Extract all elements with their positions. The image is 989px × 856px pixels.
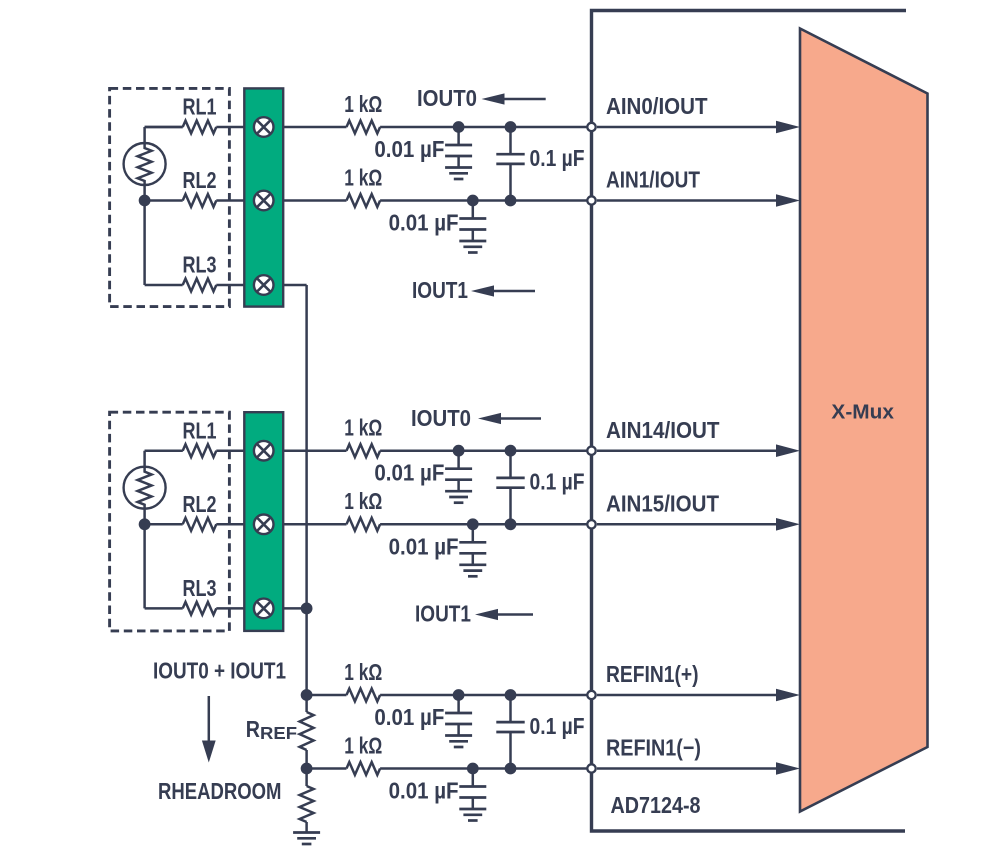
label 0.01 µF AIN14 row [374,460,444,486]
label RL1.2 [183,417,217,443]
wire RL3.2 right lead [216,607,244,610]
terminal 1C [254,275,274,295]
wire AIN15/IOUT to mux [597,523,777,526]
wire RL2.1 right lead [216,199,244,202]
label 1 kΩ AIN15 row [344,488,382,514]
svg-text:1 kΩ: 1 kΩ [344,488,382,514]
label RL2.2 [183,491,217,517]
wire RTD2 vertical [143,451,146,609]
svg-text:RL3: RL3 [183,252,217,278]
pin REFIN1(−) [587,764,595,772]
terminal 2A [254,441,274,461]
svg-text:R: R [246,716,261,742]
wire AIN0/IOUT to mux [597,126,777,129]
wire RL2.1 left lead [145,199,183,202]
wire RL3.1 right lead [216,284,244,287]
svg-text:RL1: RL1 [183,94,217,120]
label 1 kΩ REFIN1+ row [344,659,382,685]
wire RL3.2 left lead [145,607,183,610]
wire RL1.2 right lead [216,449,244,452]
wire REFIN1(−) to mux [597,767,777,770]
RTD sensor 1 element [124,143,166,185]
pin REFIN1(+) [587,691,595,699]
resistor 1kΩ AIN0 row [347,121,381,134]
wire AIN14/IOUT to mux [597,449,777,452]
label 0.01 µF REFIN1+ row [374,704,444,730]
svg-text:1 kΩ: 1 kΩ [344,415,382,441]
wire AIN1/IOUT to mux [597,199,777,202]
terminal 2C [254,599,274,619]
label 1 kΩ AIN0 row [344,91,382,117]
wire RL1.2 left lead [145,449,183,452]
svg-text:0.1 µF: 0.1 µF [530,713,585,739]
svg-text:AIN15/IOUT: AIN15/IOUT [606,491,719,517]
RTD sensor 1 dashed enclosure [110,88,230,306]
resistor RL3.1 [183,279,217,292]
arrow into mux AIN15/IOUT [776,518,800,531]
wire REFIN1(+) to mux [597,694,777,697]
arrow into mux AIN14/IOUT [776,444,800,457]
svg-text:IOUT1: IOUT1 [412,277,468,303]
label RL3.1 [183,252,217,278]
label IOUT0 + IOUT1 sum [153,658,286,684]
svg-text:IOUT0 + IOUT1: IOUT0 + IOUT1 [153,658,286,684]
node AIN15 row cap junction [467,518,479,530]
svg-text:IOUT0: IOUT0 [417,85,477,111]
label 0.01 µF AIN15 row [389,533,459,559]
label REFIN1(−) [606,735,701,761]
terminal strip 2 [244,412,283,631]
pin AIN1/IOUT [587,196,595,204]
label IOUT1 top [412,277,468,303]
capacitor 0.01 µF AIN1 row [459,201,486,253]
node AIN0 row cap junction [453,121,465,133]
svg-text:1 kΩ: 1 kΩ [344,91,382,117]
wire AIN0 row to pin [380,126,591,129]
wire AIN0 row to resistor [283,126,346,129]
wire RL1.1 left lead [145,126,183,129]
wire RL3.1 left lead [145,284,183,287]
svg-text:1 kΩ: 1 kΩ [344,164,382,190]
capacitor 0.01 µF REFIN1+ row [445,695,472,747]
wire RL1.1 right lead [216,126,244,129]
label RL2.1 [183,167,217,193]
wire AIN14 row to pin [380,449,591,452]
node REFIN1- join [301,763,313,775]
svg-text:REFIN1(−): REFIN1(−) [606,735,701,761]
svg-text:IOUT1: IOUT1 [415,601,471,627]
label AD7124-8 [611,792,701,818]
svg-text:1 kΩ: 1 kΩ [344,659,382,685]
wire RHEADROOM top lead [305,769,308,787]
capacitor 0.01 µF AIN15 row [459,524,486,576]
label RHEADROOM [158,778,282,804]
wire REFIN1- row to pin [380,767,591,770]
svg-text:0.01 µF: 0.01 µF [389,210,459,236]
pin AIN14/IOUT [587,447,595,455]
capacitor 0.1 µF pair2 [496,451,524,525]
wire AIN1 row to resistor [283,199,346,202]
node REFIN1+ row cap junction [453,689,465,701]
AD7124-8 chip outline [592,11,907,832]
ground [293,833,320,845]
label AIN0/IOUT [606,93,708,119]
wire REFIN1+ row to resistor [307,694,347,697]
wire IOUT1 terminal1 stub [283,284,306,287]
svg-text:AIN14/IOUT: AIN14/IOUT [606,417,720,443]
svg-text:X-Mux: X-Mux [831,402,894,424]
pin AIN0/IOUT [587,123,595,131]
resistor RHEADROOM [300,786,314,822]
wire IOUT1 vertical bus [305,285,308,695]
svg-text:RL3: RL3 [183,575,217,601]
label REFIN1(+) [606,661,699,687]
arrow IOUT1 top [471,285,535,296]
capacitor 0.01 µF REFIN1- row [459,769,486,821]
resistor RL1.2 [183,444,217,457]
label IOUT0 top [417,85,477,111]
node AIN15 row 0.1µF junction [505,518,517,530]
resistor RREF [300,712,314,750]
label RL1.1 [183,94,217,120]
arrow into mux AIN1/IOUT [776,194,800,207]
pin AIN15/IOUT [587,520,595,528]
wire RL1.1 lead [145,126,183,129]
node RTD1 junction [139,195,151,207]
capacitor 0.1 µF pair1 [496,127,524,201]
label IOUT0 mid [411,405,471,431]
arrow current sum down [202,696,216,763]
svg-text:1 kΩ: 1 kΩ [344,732,382,758]
label AIN15/IOUT [606,491,719,517]
wire REFIN1- row to resistor [307,767,347,770]
label X-Mux [831,402,894,424]
resistor RL2.2 [183,518,217,531]
svg-text:0.01 µF: 0.01 µF [374,136,444,162]
svg-text:0.01 µF: 0.01 µF [374,704,444,730]
terminal 1B [254,191,274,211]
svg-text:REF: REF [260,723,297,743]
label 1 kΩ AIN14 row [344,415,382,441]
node AIN14 row 0.1µF junction [505,445,517,457]
wire RTD1 vertical [143,127,146,285]
label AIN1/IOUT [606,167,700,193]
wire RREF bottom lead [305,750,308,769]
svg-text:AIN1/IOUT: AIN1/IOUT [606,167,700,193]
node REFIN1+ row 0.1µF junction [505,689,517,701]
wire IOUT1 terminal2 stub [283,607,306,610]
wire AIN1 row to pin [380,199,591,202]
svg-text:0.01 µF: 0.01 µF [374,460,444,486]
svg-text:0.01 µF: 0.01 µF [389,778,459,804]
svg-text:IOUT0: IOUT0 [411,405,471,431]
label AIN14/IOUT [606,417,720,443]
svg-text:0.1 µF: 0.1 µF [530,469,585,495]
node AIN0 row 0.1µF junction [505,121,517,133]
wire RREF top lead [305,695,308,712]
terminal 1A [254,117,274,137]
label 0.01 µF AIN1 row [389,210,459,236]
arrow into mux REFIN1(+) [776,689,800,702]
X-Mux block U1 [800,29,928,812]
label RREF [246,716,298,743]
node REFIN1- row cap junction [467,763,479,775]
arrow into mux AIN0/IOUT [776,121,800,134]
label 1 kΩ AIN1 row [344,164,382,190]
label 0.01 µF REFIN1- row [389,778,459,804]
label 0.1 µF ref pair [530,713,585,739]
node AIN1 row cap junction [467,195,479,207]
svg-text:RL2: RL2 [183,167,217,193]
label IOUT1 mid [415,601,471,627]
svg-text:REFIN1(+): REFIN1(+) [606,661,699,687]
resistor RL1.1 [183,121,217,134]
arrow IOUT0 mid [478,413,541,424]
resistor 1kΩ REFIN1- row [347,762,381,775]
capacitor 0.1 µF ref pair [496,695,524,769]
wire AIN14 row to resistor [283,449,346,452]
capacitor 0.01 µF AIN0 row [445,127,472,179]
resistor RL3.2 [183,602,217,615]
svg-text:RL2: RL2 [183,491,217,517]
RTD sensor 2 element [124,467,166,509]
arrow IOUT0 top [482,93,546,104]
RTD sensor 2 dashed enclosure [110,412,230,631]
wire RL2.2 right lead [216,523,244,526]
svg-text:0.1 µF: 0.1 µF [530,145,585,171]
node IOUT1 join [301,603,313,615]
svg-text:RHEADROOM: RHEADROOM [158,778,282,804]
svg-text:AD7124-8: AD7124-8 [611,792,701,818]
node AIN14 row cap junction [453,445,465,457]
wire RL2.2 left lead [145,523,183,526]
label RL3.2 [183,575,217,601]
label 1 kΩ REFIN1- row [344,732,382,758]
resistor 1kΩ AIN15 row [347,518,381,531]
wire AIN15 row to pin [380,523,591,526]
resistor RL2.1 [183,194,217,207]
wire AIN15 row to resistor [283,523,346,526]
arrow IOUT1 mid [475,609,533,620]
terminal 2B [254,515,274,535]
resistor 1kΩ AIN1 row [347,194,381,207]
wire RHEADROOM bottom lead [305,822,308,833]
node REFIN1+ join [301,689,313,701]
svg-text:AIN0/IOUT: AIN0/IOUT [606,93,708,119]
node RTD2 junction [139,518,151,530]
label 0.1 µF pair2 [530,469,585,495]
resistor 1kΩ AIN14 row [347,444,381,457]
wire REFIN1+ row to pin [380,694,591,697]
capacitor 0.01 µF AIN14 row [445,451,472,503]
label 0.01 µF AIN0 row [374,136,444,162]
node AIN1 row 0.1µF junction [505,195,517,207]
label 0.1 µF pair1 [530,145,585,171]
node REFIN1- row 0.1µF junction [505,763,517,775]
svg-text:0.01 µF: 0.01 µF [389,533,459,559]
svg-text:RL1: RL1 [183,417,217,443]
resistor 1kΩ REFIN1+ row [347,689,381,702]
wire RL1.2 lead [145,449,183,452]
terminal strip 1 [244,88,283,306]
arrow into mux REFIN1(−) [776,762,800,775]
